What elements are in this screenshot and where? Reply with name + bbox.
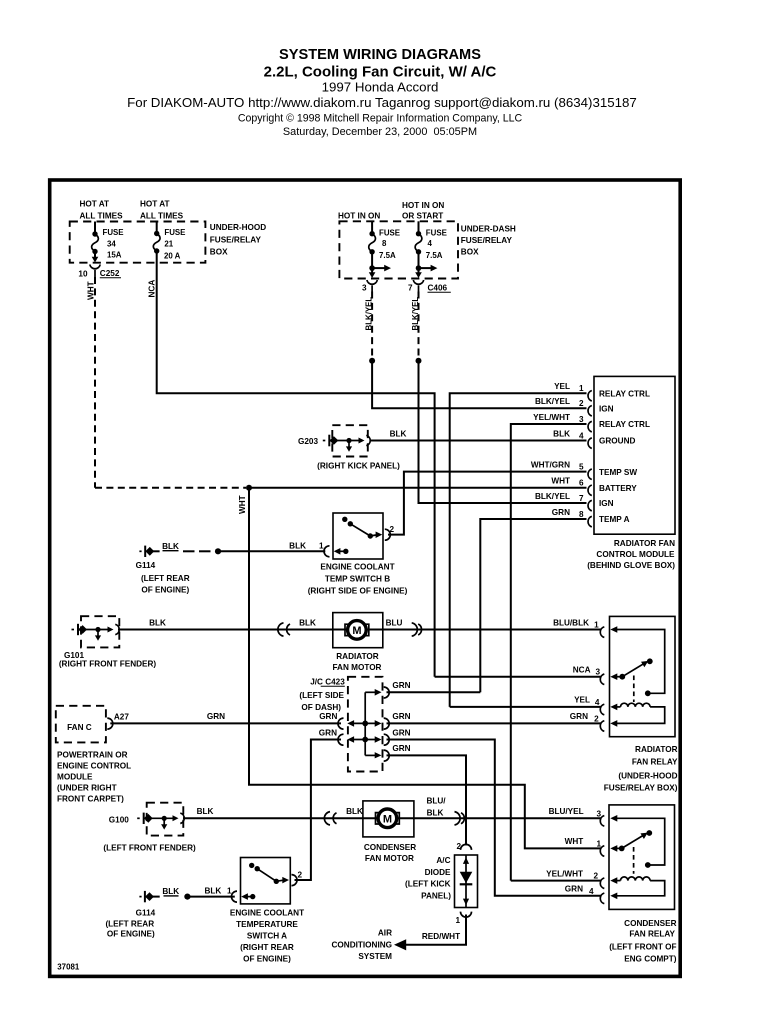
wire WHT from C252 down (dashed)	[94, 277, 96, 488]
splice WHT	[246, 485, 252, 491]
wire BLK/YEL to module pin 7	[419, 361, 587, 503]
svg-text:2: 2	[579, 399, 584, 408]
svg-text:WHT: WHT	[238, 495, 247, 514]
svg-text:RADIATOR FAN: RADIATOR FAN	[614, 539, 675, 548]
wire switch A pin 2 up to J/C branch 3	[295, 740, 342, 881]
svg-text:7.5A: 7.5A	[426, 251, 443, 260]
wire BLK G203 to module pin 4	[370, 440, 587, 442]
svg-text:MODULE: MODULE	[57, 773, 93, 782]
svg-text:HOT AT: HOT AT	[140, 200, 170, 209]
svg-text:GRN: GRN	[392, 744, 410, 753]
svg-text:NCA: NCA	[573, 666, 591, 675]
svg-text:GRN: GRN	[207, 712, 225, 721]
wire NCA from fuse 21 down then right to module pin 1 area	[157, 251, 435, 677]
svg-text:G203: G203	[298, 437, 318, 446]
svg-text:RADIATOR: RADIATOR	[336, 652, 379, 661]
wire RED/WHT to air conditioning system	[406, 915, 466, 945]
svg-text:FAN RELAY: FAN RELAY	[629, 930, 675, 939]
svg-text:FUSE/RELAY: FUSE/RELAY	[210, 235, 262, 244]
radiator fan motor M1	[333, 613, 383, 672]
svg-text:2: 2	[594, 714, 599, 723]
svg-text:OF ENGINE): OF ENGINE)	[107, 929, 155, 938]
svg-text:TEMP A: TEMP A	[599, 515, 630, 524]
svg-text:1: 1	[455, 916, 460, 925]
fuse 4 7.5A	[415, 221, 447, 273]
svg-text:21: 21	[164, 240, 173, 249]
svg-text:CONTROL MODULE: CONTROL MODULE	[596, 550, 675, 559]
svg-text:WHT: WHT	[551, 477, 570, 486]
svg-text:G100: G100	[109, 815, 129, 824]
svg-text:2.2L, Cooling Fan Circuit, W/: 2.2L, Cooling Fan Circuit, W/ A/C	[264, 64, 497, 81]
svg-text:GRN: GRN	[552, 508, 570, 517]
svg-text:BLK: BLK	[162, 887, 179, 896]
module pin 8 TEMP A	[552, 508, 630, 527]
wire BLK/YEL from C406 pin 7 (dashed)	[418, 292, 420, 361]
module pin 1 RELAY CTRL	[554, 382, 650, 401]
svg-text:RELAY CTRL: RELAY CTRL	[599, 389, 650, 398]
svg-text:C406: C406	[428, 284, 448, 293]
connector C406 pin 3	[362, 280, 377, 293]
junction connector J/C C423	[299, 677, 389, 772]
svg-text:M: M	[383, 813, 392, 825]
wire BLK G100 to condenser fan motor	[183, 817, 377, 819]
splice dot BLK	[184, 894, 190, 900]
svg-text:37081: 37081	[57, 962, 80, 971]
splice dot BLK	[215, 548, 221, 554]
svg-text:GRN: GRN	[319, 728, 337, 737]
svg-text:TEMP SW: TEMP SW	[599, 468, 637, 477]
svg-text:FUSE: FUSE	[426, 228, 447, 237]
module pin 7 IGN	[535, 492, 614, 511]
svg-text:BLK: BLK	[197, 807, 214, 816]
svg-text:FAN MOTOR: FAN MOTOR	[333, 663, 382, 672]
fuse 34 15A	[92, 222, 124, 263]
under-dash fuse/relay box (dashed)	[339, 221, 516, 278]
svg-text:5: 5	[579, 463, 584, 472]
svg-text:BOX: BOX	[210, 247, 228, 256]
junction + bus arrow right (fuse 4)	[415, 265, 437, 278]
svg-text:(LEFT REAR: (LEFT REAR	[141, 574, 190, 583]
svg-text:4: 4	[579, 432, 584, 441]
wire GRN FAN C to J/C branch 2	[110, 722, 341, 724]
page border frame	[50, 180, 681, 976]
wire YEL/WHT into pin 2	[511, 880, 602, 882]
svg-text:UNDER-HOOD: UNDER-HOOD	[210, 223, 266, 232]
connector C406 pin 7	[408, 280, 451, 293]
branch 4 out	[365, 754, 375, 756]
svg-text:7: 7	[408, 284, 413, 293]
svg-text:15A: 15A	[107, 251, 122, 260]
module pin 4 GROUND	[553, 430, 635, 449]
svg-text:(RIGHT REAR: (RIGHT REAR	[240, 943, 294, 952]
svg-text:ENGINE CONTROL: ENGINE CONTROL	[57, 762, 131, 771]
svg-text:WHT/GRN: WHT/GRN	[531, 461, 570, 470]
svg-text:UNDER-DASH: UNDER-DASH	[461, 225, 516, 234]
svg-text:BLK/YEL: BLK/YEL	[535, 492, 570, 501]
svg-text:ALL TIMES: ALL TIMES	[80, 212, 124, 221]
svg-text:2: 2	[390, 525, 395, 534]
svg-text:BLU/BLK: BLU/BLK	[553, 618, 589, 627]
wire BLK/YEL to module pin 2	[372, 361, 586, 409]
svg-text:G114: G114	[136, 908, 156, 917]
svg-text:1: 1	[594, 621, 599, 630]
svg-text:SYSTEM: SYSTEM	[358, 952, 392, 961]
wire NCA horizontal to radiator fan relay pin 3	[435, 676, 602, 678]
svg-text:BLU/: BLU/	[426, 797, 446, 806]
svg-text:BLK: BLK	[346, 807, 363, 816]
svg-text:BLU/YEL: BLU/YEL	[549, 807, 584, 816]
svg-text:OR START: OR START	[402, 212, 443, 221]
svg-text:BLK: BLK	[149, 618, 166, 627]
wire BLU / BLU-BLK to radiator fan relay pin 1	[367, 629, 602, 631]
fuse 21 20A	[153, 222, 185, 261]
svg-text:FUSE: FUSE	[103, 228, 124, 237]
ground G101 (right front fender)	[59, 616, 157, 668]
svg-text:(LEFT REAR: (LEFT REAR	[105, 920, 154, 929]
svg-text:RED/WHT: RED/WHT	[422, 932, 460, 941]
engine coolant temperature switch A	[230, 858, 304, 964]
ground G114 (left rear of engine, lower)	[105, 887, 179, 938]
svg-text:M: M	[352, 625, 361, 637]
svg-text:WHT: WHT	[565, 837, 584, 846]
svg-text:8: 8	[579, 510, 584, 519]
svg-text:GRN: GRN	[319, 712, 337, 721]
svg-text:GRN: GRN	[392, 712, 410, 721]
title header	[127, 47, 637, 138]
svg-text:NCA: NCA	[147, 280, 156, 298]
engine coolant temp switch B	[308, 513, 408, 596]
module pin 5 TEMP SW	[531, 461, 637, 480]
branch 2 in/out	[362, 721, 368, 727]
junction + bus arrow right (fuse 8)	[369, 265, 391, 278]
condenser fan motor M2	[363, 801, 416, 863]
inline connector ((	[324, 812, 336, 825]
svg-text:YEL: YEL	[554, 382, 570, 391]
svg-text:3: 3	[579, 415, 584, 424]
svg-text:IGN: IGN	[599, 499, 614, 508]
radiator fan relay K1	[600, 616, 678, 792]
splice dot fuse 8 wire	[369, 358, 375, 364]
wire BLK/YEL from C406 pin 3 (dashed)	[371, 292, 373, 361]
wire GRN from J/C C423 up to module pin 8	[480, 519, 586, 692]
svg-text:J/C C423: J/C C423	[310, 678, 345, 687]
svg-text:GRN: GRN	[570, 712, 588, 721]
A/C diode D1	[405, 842, 477, 925]
ground G114 (left rear of engine, upper)	[136, 542, 211, 594]
svg-text:FAN C: FAN C	[67, 723, 92, 732]
wire YEL horizontal to radiator fan relay pin 4	[450, 706, 602, 708]
wire YEL from radiator fan relay pin 4 up to module pin 1	[450, 393, 587, 707]
svg-text:GROUND: GROUND	[599, 437, 635, 446]
svg-text:BLK: BLK	[289, 541, 306, 550]
svg-text:BLK: BLK	[299, 618, 316, 627]
svg-text:BLK: BLK	[204, 887, 221, 896]
svg-text:C252: C252	[100, 269, 120, 278]
node HOT AT ALL TIMES (fuse 34)	[80, 200, 124, 221]
radiator fan control module U1	[587, 376, 675, 570]
svg-text:(LEFT FRONT OF: (LEFT FRONT OF	[609, 943, 676, 952]
svg-text:FRONT CARPET): FRONT CARPET)	[57, 795, 124, 804]
svg-text:10: 10	[78, 270, 88, 279]
svg-text:BLK/YEL: BLK/YEL	[535, 397, 570, 406]
FAN C pin of powertrain/engine control module	[56, 706, 131, 804]
svg-text:Saturday, December 23, 2000 0: Saturday, December 23, 2000 05:05PM	[283, 126, 477, 138]
svg-text:BATTERY: BATTERY	[599, 484, 637, 493]
svg-text:ALL TIMES: ALL TIMES	[140, 212, 184, 221]
wire WHT branch down to condenser fan relay pin 1	[249, 488, 601, 849]
svg-text:YEL: YEL	[574, 696, 590, 705]
svg-text:CONDENSER: CONDENSER	[364, 843, 416, 852]
svg-text:3: 3	[362, 284, 367, 293]
svg-text:ENG COMPT): ENG COMPT)	[624, 955, 677, 964]
svg-text:(UNDER RIGHT: (UNDER RIGHT	[57, 784, 117, 793]
svg-text:(LEFT SIDE: (LEFT SIDE	[299, 691, 344, 700]
module pin 2 IGN	[535, 397, 614, 416]
svg-text:RADIATOR: RADIATOR	[635, 745, 678, 754]
svg-text:GRN: GRN	[392, 681, 410, 690]
svg-text:IGN: IGN	[599, 404, 614, 413]
node HOT IN ON OR START (fuse 4)	[402, 201, 444, 221]
svg-text:BLK/YEL: BLK/YEL	[365, 297, 374, 331]
svg-text:OF ENGINE): OF ENGINE)	[243, 955, 291, 964]
svg-text:GRN: GRN	[392, 728, 410, 737]
svg-text:A/C: A/C	[436, 856, 450, 865]
module pin 6 BATTERY	[551, 477, 637, 496]
svg-text:FUSE: FUSE	[164, 228, 185, 237]
wire YEL/WHT module pin 3 down to condenser fan relay pin 2	[511, 424, 587, 881]
svg-text:For DIAKOM-AUTO http://www.dia: For DIAKOM-AUTO http://www.diakom.ru Tag…	[127, 95, 637, 110]
splice dot fuse 4 wire	[416, 358, 422, 364]
module pin 3 RELAY CTRL	[533, 413, 650, 432]
svg-text:FAN MOTOR: FAN MOTOR	[365, 854, 414, 863]
svg-text:DIODE: DIODE	[425, 868, 451, 877]
svg-text:(LEFT KICK: (LEFT KICK	[405, 880, 451, 889]
wire GRN J/C to radiator fan relay pin 2	[387, 722, 602, 724]
inline connector ))	[412, 623, 422, 636]
fuse 8 7.5A	[369, 221, 400, 273]
svg-text:SYSTEM WIRING DIAGRAMS: SYSTEM WIRING DIAGRAMS	[279, 47, 481, 63]
svg-text:YEL/WHT: YEL/WHT	[546, 869, 583, 878]
svg-text:HOT AT: HOT AT	[80, 200, 110, 209]
svg-text:HOT IN ON: HOT IN ON	[338, 212, 380, 221]
svg-text:2: 2	[298, 871, 303, 880]
svg-text:7: 7	[579, 494, 584, 503]
J/C bus	[364, 692, 366, 755]
svg-text:ENGINE COOLANT: ENGINE COOLANT	[230, 909, 304, 918]
svg-text:A27: A27	[114, 713, 129, 722]
svg-text:BLK: BLK	[553, 430, 570, 439]
condenser fan relay K2	[600, 805, 676, 964]
ground G203	[298, 425, 400, 470]
svg-text:FAN RELAY: FAN RELAY	[632, 758, 678, 767]
svg-text:PANEL): PANEL)	[421, 892, 451, 901]
svg-text:FUSE/RELAY BOX): FUSE/RELAY BOX)	[604, 784, 678, 793]
branch 1 out	[365, 691, 375, 693]
svg-text:BOX: BOX	[461, 248, 479, 257]
svg-text:BLK: BLK	[390, 429, 407, 438]
svg-text:8: 8	[382, 239, 387, 248]
svg-text:4: 4	[589, 887, 594, 896]
wire BLU/BLK - BLU/YEL to condenser fan relay pin 3	[397, 817, 601, 819]
svg-text:34: 34	[107, 240, 116, 249]
svg-text:1997 Honda Accord: 1997 Honda Accord	[322, 80, 439, 95]
svg-text:YEL/WHT: YEL/WHT	[533, 413, 570, 422]
svg-text:FUSE/RELAY: FUSE/RELAY	[461, 236, 513, 245]
svg-text:GRN: GRN	[565, 885, 583, 894]
wire WHT/GRN from temp switch B pin 2 up to module pin 5	[388, 472, 587, 535]
svg-text:(UNDER-HOOD: (UNDER-HOOD	[618, 772, 677, 781]
svg-text:TEMP SWITCH B: TEMP SWITCH B	[325, 575, 390, 584]
node HOT AT ALL TIMES (fuse 21)	[140, 200, 184, 221]
svg-text:6: 6	[579, 479, 584, 488]
connector C252 pin 10	[78, 265, 121, 279]
svg-text:G114: G114	[136, 561, 156, 570]
svg-text:OF DASH): OF DASH)	[301, 703, 341, 712]
wire BLK to temp switch A pin 1	[187, 896, 234, 898]
svg-text:20 A: 20 A	[164, 252, 181, 261]
svg-text:AIR: AIR	[378, 929, 392, 938]
svg-text:CONDENSER: CONDENSER	[624, 919, 676, 928]
ground G100 (left front fender)	[103, 803, 196, 853]
svg-text:BLU: BLU	[386, 618, 403, 627]
svg-text:2: 2	[593, 872, 598, 881]
inline connector ((	[278, 623, 290, 636]
svg-text:FUSE: FUSE	[379, 228, 400, 237]
svg-text:BLK: BLK	[427, 809, 444, 818]
under-hood fuse/relay box (dashed)	[70, 222, 267, 263]
svg-text:4: 4	[428, 239, 433, 248]
svg-text:BLK: BLK	[162, 542, 179, 551]
branch 3 in/out	[362, 737, 368, 743]
wire GRN branch 1 to module pin 8 vertical	[387, 691, 481, 693]
svg-text:3: 3	[595, 668, 600, 677]
svg-text:HOT IN ON: HOT IN ON	[402, 201, 444, 210]
svg-text:1: 1	[319, 541, 324, 550]
wire WHT to module pin 6	[249, 487, 587, 489]
svg-text:TEMPERATURE: TEMPERATURE	[236, 920, 298, 929]
svg-text:SWITCH A: SWITCH A	[247, 932, 287, 941]
svg-text:1: 1	[579, 384, 584, 393]
svg-text:Copyright © 1998 Mitchell Repa: Copyright © 1998 Mitchell Repair Informa…	[238, 112, 523, 124]
svg-text:OF ENGINE): OF ENGINE)	[141, 585, 189, 594]
wire GRN branch 3 down to condenser fan relay pin 4	[387, 740, 602, 896]
svg-text:2: 2	[456, 842, 461, 851]
svg-text:CONDITIONING: CONDITIONING	[332, 941, 393, 950]
svg-text:(RIGHT KICK PANEL): (RIGHT KICK PANEL)	[317, 461, 400, 470]
wire GRN branch 4 to A/C diode	[387, 755, 467, 845]
svg-text:(RIGHT FRONT FENDER): (RIGHT FRONT FENDER)	[59, 660, 157, 669]
wire BLK to temp switch B pin 1	[218, 550, 325, 552]
svg-text:(LEFT FRONT FENDER): (LEFT FRONT FENDER)	[103, 843, 196, 852]
wire BLK G101 to radiator fan motor	[118, 629, 347, 631]
svg-text:RELAY CTRL: RELAY CTRL	[599, 420, 650, 429]
svg-text:ENGINE COOLANT: ENGINE COOLANT	[320, 563, 394, 572]
svg-text:(RIGHT SIDE OF ENGINE): (RIGHT SIDE OF ENGINE)	[308, 587, 408, 596]
inline connector ))	[455, 812, 465, 825]
node AIR CONDITIONING SYSTEM	[332, 929, 393, 962]
wire WHT dashed horizontal to splice	[95, 487, 246, 489]
svg-text:7.5A: 7.5A	[379, 251, 396, 260]
svg-text:(BEHIND GLOVE BOX): (BEHIND GLOVE BOX)	[587, 561, 675, 570]
svg-text:BLK/YEL: BLK/YEL	[411, 297, 420, 331]
svg-text:G101: G101	[64, 651, 84, 660]
svg-text:POWERTRAIN OR: POWERTRAIN OR	[57, 751, 128, 760]
svg-text:4: 4	[595, 698, 600, 707]
svg-text:WHT: WHT	[87, 281, 96, 300]
